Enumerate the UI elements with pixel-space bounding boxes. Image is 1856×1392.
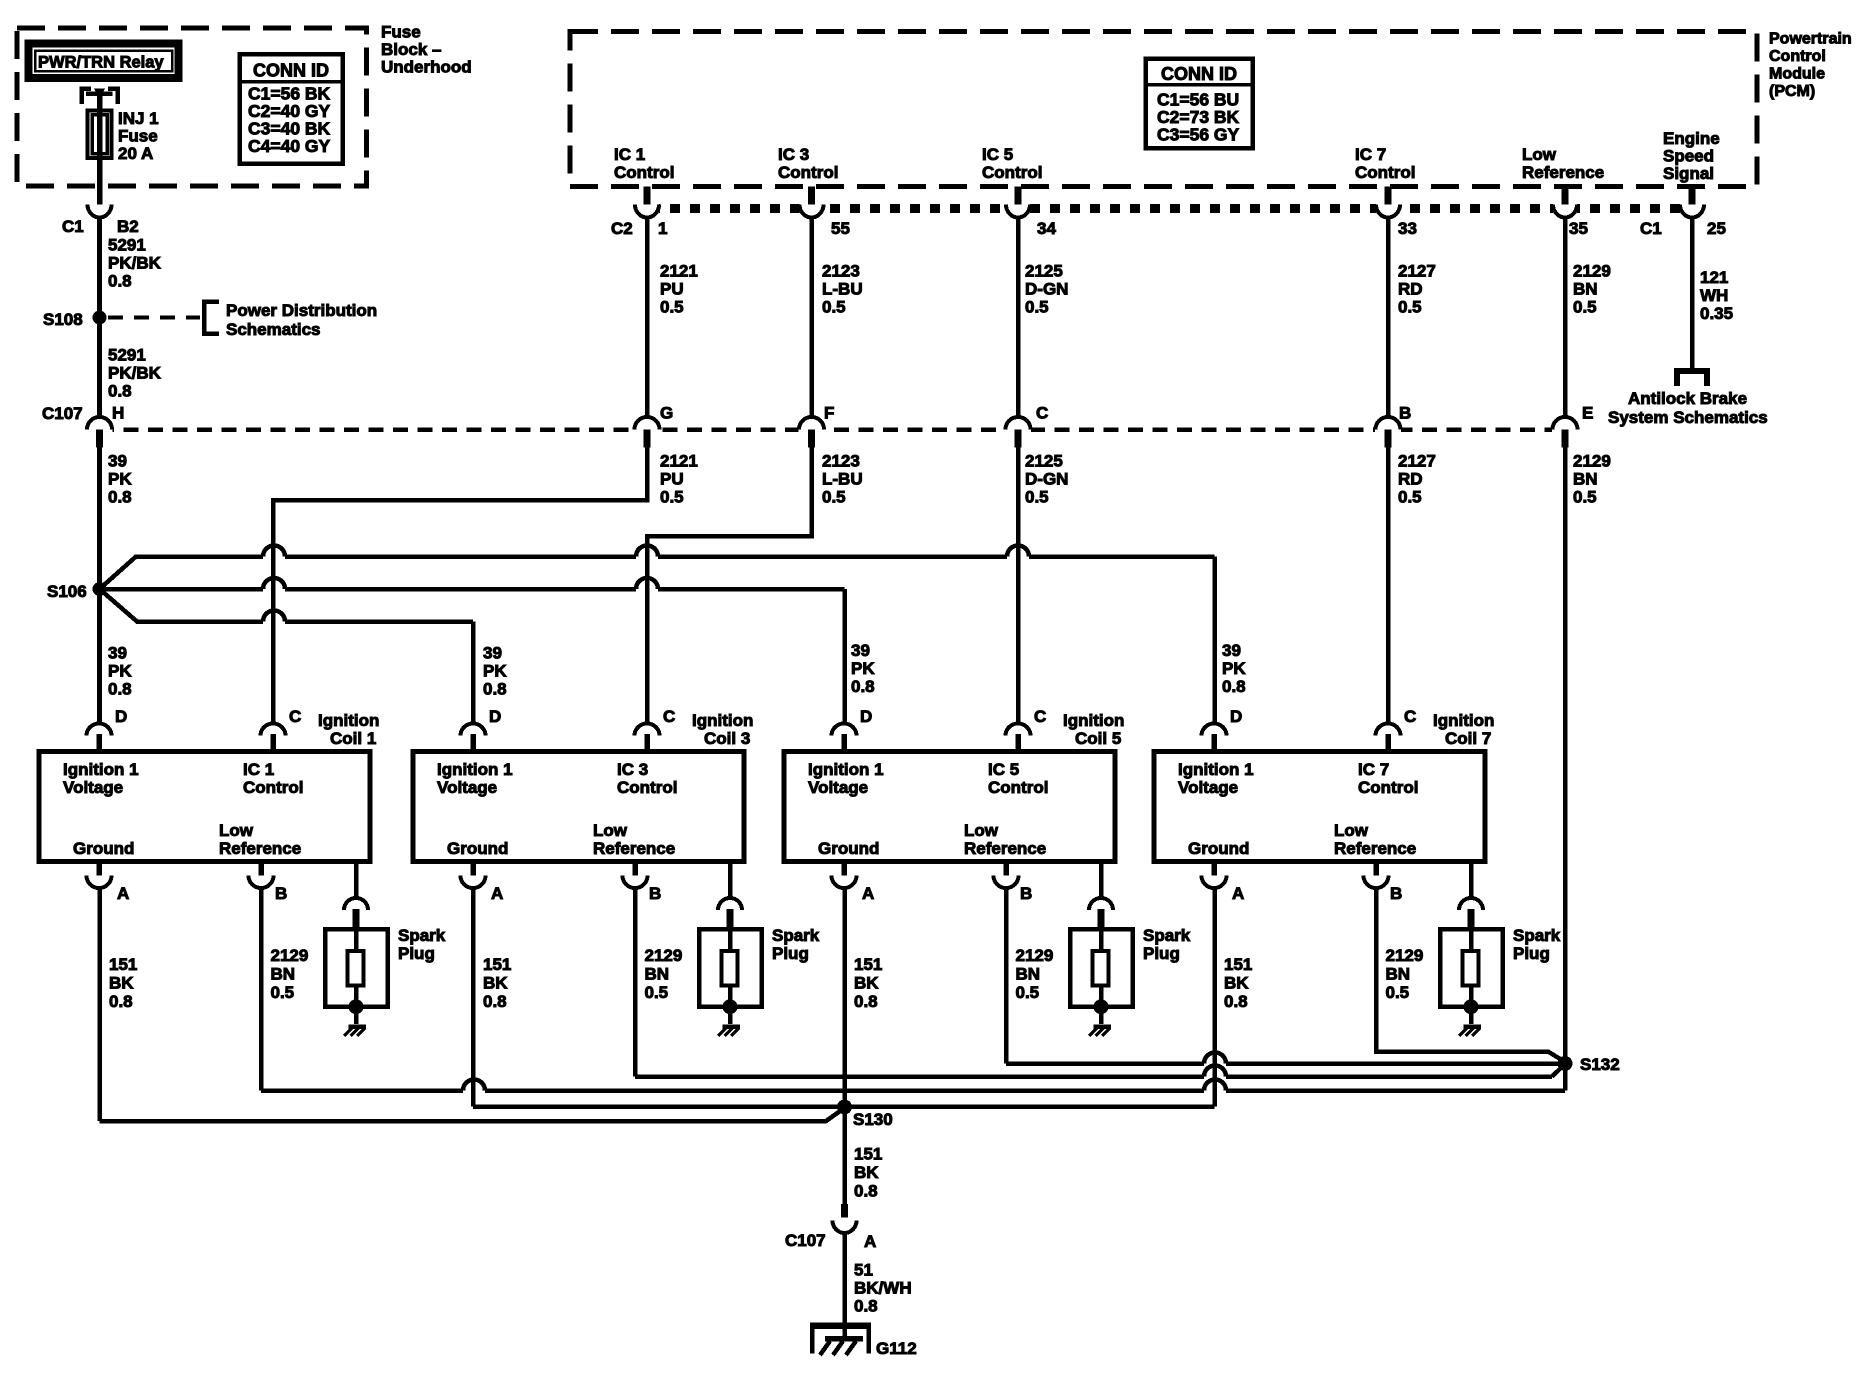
svg-text:2121: 2121 — [660, 452, 698, 471]
svg-text:0.8: 0.8 — [108, 272, 132, 291]
svg-text:151: 151 — [1224, 955, 1252, 974]
spark plug 1 resistor element — [348, 951, 364, 986]
svg-text:0.5: 0.5 — [1386, 983, 1410, 1002]
svg-text:Ignition 1: Ignition 1 — [437, 760, 513, 779]
svg-text:D: D — [1230, 707, 1242, 726]
svg-text:B: B — [649, 884, 661, 903]
svg-text:51: 51 — [854, 1261, 873, 1280]
svg-text:Reference: Reference — [593, 839, 675, 858]
svg-text:0.8: 0.8 — [109, 992, 133, 1011]
svg-text:BN: BN — [1573, 470, 1598, 489]
svg-text:0.5: 0.5 — [1398, 488, 1422, 507]
wire 151 BK: coil 7 ground to S130 bus — [1212, 886, 1217, 1107]
svg-text:D-GN: D-GN — [1025, 470, 1068, 489]
wire hop (39 PK top over 2123) — [636, 546, 658, 557]
wire hop (39 PK bottom over 2121) — [263, 611, 285, 622]
wire 2129 BN: coil 3 low reference bus — [633, 886, 638, 1077]
connector C107 pin H — [87, 425, 113, 434]
wire hop (39 PK middle over 2121) — [263, 578, 285, 589]
svg-text:PK: PK — [851, 659, 875, 678]
svg-text:Coil 1: Coil 1 — [330, 729, 376, 748]
svg-text:A: A — [117, 884, 129, 903]
svg-text:Fuse: Fuse — [118, 127, 158, 146]
svg-text:Antilock Brake: Antilock Brake — [1628, 389, 1747, 408]
svg-text:Reference: Reference — [1334, 839, 1416, 858]
svg-text:Reference: Reference — [219, 839, 301, 858]
wire 151 BK: coil 1 ground to S130 — [97, 886, 102, 1121]
wire hop (coil 1 low ref over coil 7 ground) — [1204, 1080, 1226, 1091]
svg-text:A: A — [864, 1232, 876, 1251]
svg-text:2127: 2127 — [1398, 452, 1436, 471]
svg-text:B: B — [1020, 884, 1032, 903]
svg-text:IC 7: IC 7 — [1358, 760, 1389, 779]
spark plug 7 resistor element — [1463, 951, 1479, 986]
svg-text:0.8: 0.8 — [108, 488, 132, 507]
ground: spark plug 5 — [1099, 1007, 1104, 1024]
wire hop (39 PK top over 2121) — [263, 546, 285, 557]
svg-text:Low: Low — [1334, 821, 1369, 840]
svg-text:Block –: Block – — [381, 40, 441, 59]
svg-text:Ignition: Ignition — [1063, 711, 1124, 730]
svg-text:IC 7: IC 7 — [1355, 145, 1386, 164]
connector C107 pin G — [634, 425, 660, 434]
svg-text:BK/WH: BK/WH — [854, 1279, 912, 1298]
wire hop (coil 1 low ref over 151) — [463, 1080, 485, 1091]
spark plug 1 (box) — [325, 929, 388, 1007]
spark plug 7 connector — [1459, 898, 1483, 910]
svg-text:0.5: 0.5 — [1016, 983, 1040, 1002]
svg-text:Ignition: Ignition — [1433, 711, 1494, 730]
svg-text:Plug: Plug — [1143, 944, 1180, 963]
spark plug 5 (box) — [1070, 929, 1133, 1007]
svg-text:Reference: Reference — [1522, 163, 1604, 182]
svg-text:Coil 5: Coil 5 — [1075, 729, 1121, 748]
connector C107 pin C — [1005, 425, 1031, 434]
svg-text:BK: BK — [1224, 974, 1249, 993]
ground: spark plug 1 — [354, 1007, 359, 1024]
connector C107 pin A (bottom) — [833, 1221, 857, 1234]
svg-text:2129: 2129 — [645, 946, 683, 965]
wire 39 PK middle branch: S106 to coil 5 voltage — [106, 587, 263, 592]
svg-text:Signal: Signal — [1663, 164, 1714, 183]
svg-text:PK: PK — [1222, 659, 1246, 678]
coil 1 pin A connector (Ground) — [96, 861, 102, 876]
svg-text:2123: 2123 — [822, 262, 860, 281]
wire hop (coil 3 low ref over coil 7 ground) — [1204, 1066, 1226, 1077]
svg-text:Coil 7: Coil 7 — [1445, 729, 1491, 748]
PCM module box (dashed) — [570, 32, 1757, 187]
spark plug 3 resistor element — [722, 951, 738, 986]
svg-text:0.5: 0.5 — [660, 298, 684, 317]
wire 39 PK bottom branch: S106 to coil 3 voltage — [100, 589, 264, 622]
svg-text:B: B — [1399, 404, 1411, 423]
ground: spark plug 7 — [1469, 1007, 1474, 1024]
svg-text:C: C — [289, 707, 301, 726]
connector C107 pin F — [799, 425, 825, 434]
coil 1 pin D connector (Ignition 1 Voltage) — [87, 724, 112, 736]
svg-text:0.8: 0.8 — [1224, 992, 1248, 1011]
junction: spark plug 1 shell — [349, 999, 364, 1014]
connector C2 dotted line — [650, 204, 1710, 213]
svg-text:2129: 2129 — [1386, 946, 1424, 965]
svg-text:0.5: 0.5 — [1025, 488, 1049, 507]
wire 51 BK/WH: C107 A to G112 — [842, 1232, 847, 1338]
wire 5291 PK/BK: S108 to C107 H — [97, 318, 102, 418]
svg-text:39: 39 — [108, 452, 127, 471]
connector C2/C1 pin 25 (PCM) — [1680, 202, 1704, 215]
svg-text:2129: 2129 — [271, 946, 309, 965]
svg-text:H: H — [112, 404, 124, 423]
svg-text:Voltage: Voltage — [437, 778, 497, 797]
svg-text:D-GN: D-GN — [1025, 280, 1068, 299]
svg-text:0.8: 0.8 — [108, 680, 132, 699]
svg-text:Schematics: Schematics — [226, 320, 321, 339]
svg-text:39: 39 — [1222, 641, 1241, 660]
svg-text:L-BU: L-BU — [822, 280, 863, 299]
svg-text:2125: 2125 — [1025, 262, 1063, 281]
connector C2/C1 pin 34 (PCM) — [1006, 202, 1030, 215]
svg-text:PK/BK: PK/BK — [108, 364, 162, 383]
svg-text:C: C — [1034, 707, 1046, 726]
svg-text:B: B — [275, 884, 287, 903]
svg-text:151: 151 — [109, 955, 137, 974]
fuse block - underhood module (dashed box) — [17, 28, 367, 186]
svg-text:0.8: 0.8 — [108, 382, 132, 401]
svg-text:Control: Control — [778, 163, 838, 182]
svg-text:Control: Control — [1358, 778, 1418, 797]
splice S132 — [1558, 1056, 1573, 1071]
svg-text:C2: C2 — [611, 219, 633, 238]
svg-text:35: 35 — [1569, 219, 1588, 238]
svg-text:Speed: Speed — [1663, 147, 1714, 166]
svg-text:Voltage: Voltage — [63, 778, 123, 797]
svg-text:Control: Control — [982, 163, 1042, 182]
svg-text:C: C — [1404, 707, 1416, 726]
svg-text:2129: 2129 — [1573, 452, 1611, 471]
svg-text:Low: Low — [593, 821, 628, 840]
coil 5 pin C connector (IC Control) — [1006, 724, 1031, 736]
coil 5 pin A connector (Ground) — [841, 861, 847, 876]
svg-text:C107: C107 — [42, 404, 83, 423]
svg-text:1: 1 — [658, 219, 667, 238]
svg-text:Spark: Spark — [1513, 926, 1561, 945]
svg-text:(PCM): (PCM) — [1769, 83, 1815, 100]
svg-text:151: 151 — [483, 955, 511, 974]
svg-text:F: F — [824, 404, 834, 423]
spark plug 7 (box) — [1440, 929, 1503, 1007]
svg-text:S108: S108 — [43, 310, 83, 329]
svg-text:D: D — [489, 707, 501, 726]
svg-text:Ignition: Ignition — [692, 711, 753, 730]
relay PWR/TRN Relay (box) — [29, 44, 179, 79]
wire 2129 BN: C107 E down to S132 / low reference bus — [1563, 447, 1568, 1091]
svg-text:Control: Control — [243, 778, 303, 797]
connector C2/C1 pin 55 (PCM) — [800, 202, 824, 215]
svg-text:Spark: Spark — [398, 926, 446, 945]
svg-text:RD: RD — [1398, 280, 1423, 299]
svg-text:Plug: Plug — [772, 944, 809, 963]
svg-text:Powertrain: Powertrain — [1769, 31, 1852, 48]
svg-text:B2: B2 — [117, 217, 139, 236]
svg-text:Ignition 1: Ignition 1 — [63, 760, 139, 779]
wire: coil 5 to spark plug — [1099, 861, 1104, 899]
wire 2123 L-BU: C107 F to coil 3 IC control — [647, 447, 812, 724]
bracket: Antilock Brake System Schematics reference — [1677, 371, 1707, 386]
svg-text:RD: RD — [1398, 470, 1423, 489]
wire 121 WH: engine speed signal — [1690, 216, 1695, 371]
relay contact symbol — [82, 89, 92, 105]
svg-text:BN: BN — [1386, 965, 1411, 984]
wire: spark plug 7 internal — [1469, 929, 1474, 951]
svg-text:G: G — [660, 404, 673, 423]
svg-text:C1: C1 — [1640, 219, 1662, 238]
svg-text:151: 151 — [854, 955, 882, 974]
spark plug 1 connector — [344, 898, 368, 910]
svg-text:BN: BN — [1016, 965, 1041, 984]
svg-text:Control: Control — [1355, 163, 1415, 182]
connector C107 pin E — [1552, 425, 1578, 434]
svg-text:G112: G112 — [876, 1339, 917, 1358]
wire: spark plug 5 internal — [1099, 929, 1104, 951]
wire 151 BK: S130 to C107 A — [842, 1107, 847, 1204]
coil 7 pin D connector (Ignition 1 Voltage) — [1202, 724, 1227, 736]
svg-text:S132: S132 — [1580, 1055, 1620, 1074]
svg-text:121: 121 — [1700, 268, 1728, 287]
svg-text:0.5: 0.5 — [660, 488, 684, 507]
svg-text:D: D — [860, 707, 872, 726]
svg-text:Fuse: Fuse — [381, 23, 421, 42]
svg-text:0.5: 0.5 — [822, 298, 846, 317]
svg-text:0.5: 0.5 — [1573, 298, 1597, 317]
svg-text:Control: Control — [617, 778, 677, 797]
svg-text:CONN ID: CONN ID — [253, 61, 329, 81]
svg-text:0.5: 0.5 — [822, 488, 846, 507]
spark plug 5 resistor element — [1093, 951, 1109, 986]
coil 7 pin A connector (Ground) — [1211, 861, 1217, 876]
svg-text:Ignition 1: Ignition 1 — [1178, 760, 1254, 779]
svg-text:C: C — [1036, 404, 1048, 423]
svg-text:55: 55 — [831, 219, 850, 238]
fuse block CONN ID table — [240, 54, 343, 164]
svg-text:Control: Control — [988, 778, 1048, 797]
connector C1 (fuse block, pin B2) — [88, 205, 112, 218]
ignition coil 7 (module box) — [1154, 752, 1485, 862]
svg-text:PK: PK — [483, 662, 507, 681]
PCM CONN ID table — [1146, 59, 1253, 149]
svg-text:2121: 2121 — [660, 262, 698, 281]
svg-text:2129: 2129 — [1016, 946, 1054, 965]
svg-text:39: 39 — [108, 644, 127, 663]
svg-text:0.8: 0.8 — [854, 1182, 878, 1201]
ignition coil 1 (module box) — [39, 752, 370, 862]
ignition coil 5 (module box) — [784, 752, 1115, 862]
svg-text:BK: BK — [483, 974, 508, 993]
svg-text:151: 151 — [854, 1145, 882, 1164]
svg-text:2123: 2123 — [822, 452, 860, 471]
svg-text:S106: S106 — [47, 582, 87, 601]
wire 2121 PU: C107 G to coil 1 IC control — [273, 447, 647, 724]
connector C2/C1 pin 35 (PCM) — [1553, 202, 1577, 215]
svg-text:C4=40 GY: C4=40 GY — [248, 136, 331, 156]
svg-text:PU: PU — [660, 470, 684, 489]
wire hop (39 PK top over 2125) — [1007, 546, 1029, 557]
coil 3 pin C connector (IC Control) — [635, 724, 660, 736]
svg-text:Ground: Ground — [73, 839, 134, 858]
svg-text:0.8: 0.8 — [854, 1297, 878, 1316]
wire 2125 D-GN: PCM pin 34 to C107 C — [1016, 216, 1021, 418]
svg-text:5291: 5291 — [108, 236, 146, 255]
svg-text:Ground: Ground — [1188, 839, 1249, 858]
wire 2121 PU: PCM pin 1 to C107 G — [645, 216, 650, 418]
wire 151 BK: coil 3 ground to S130 bus — [471, 886, 476, 1107]
wire hop (coil 5 low ref over coil 7 ground) — [1204, 1053, 1226, 1064]
svg-text:0.8: 0.8 — [851, 677, 875, 696]
svg-text:System Schematics: System Schematics — [1608, 408, 1768, 427]
splice S106 — [93, 582, 107, 596]
svg-text:Power Distribution: Power Distribution — [226, 301, 377, 320]
coil 3 pin B connector (Low Reference) — [632, 861, 638, 876]
svg-text:Coil 3: Coil 3 — [704, 729, 750, 748]
svg-text:A: A — [491, 884, 503, 903]
svg-text:Low: Low — [1522, 145, 1557, 164]
svg-text:0.5: 0.5 — [1398, 298, 1422, 317]
bracket: Power Distribution Schematics reference — [204, 302, 219, 334]
svg-text:0.8: 0.8 — [483, 680, 507, 699]
ground G112 (symbol) — [810, 1322, 871, 1329]
wire: spark plug 1 internal — [354, 929, 359, 951]
coil 3 pin A connector (Ground) — [470, 861, 476, 876]
svg-text:Spark: Spark — [1143, 926, 1191, 945]
wire hop (39 PK middle over 2123) — [636, 578, 658, 589]
wire 39 PK: C107 H to S106 — [97, 447, 102, 589]
svg-text:25: 25 — [1707, 219, 1726, 238]
svg-text:C: C — [663, 707, 675, 726]
svg-text:A: A — [862, 884, 874, 903]
wire 5291 PK/BK: C1 to S108 — [97, 216, 102, 318]
wire: relay through INJ 1 fuse to connector C1 — [97, 95, 103, 205]
svg-text:Module: Module — [1769, 66, 1825, 83]
svg-text:Plug: Plug — [1513, 944, 1550, 963]
wire 2125 D-GN: C107 C to coil 5 IC control — [1016, 447, 1021, 724]
svg-text:2125: 2125 — [1025, 452, 1063, 471]
svg-text:20 A: 20 A — [118, 144, 153, 163]
svg-text:PK: PK — [108, 470, 132, 489]
svg-text:2127: 2127 — [1398, 262, 1436, 281]
svg-text:33: 33 — [1398, 219, 1417, 238]
coil 7 pin C connector (IC Control) — [1376, 724, 1401, 736]
wire 39 PK: S106 down to coil 1 voltage — [97, 589, 102, 724]
connector C107 dashed line — [99, 427, 1578, 432]
svg-text:Low: Low — [219, 821, 254, 840]
junction: spark plug 5 shell — [1094, 999, 1109, 1014]
coil 1 pin B connector (Low Reference) — [258, 861, 264, 876]
svg-text:B: B — [1390, 884, 1402, 903]
svg-text:39: 39 — [483, 644, 502, 663]
svg-text:CONN ID: CONN ID — [1161, 64, 1237, 84]
svg-text:0.35: 0.35 — [1700, 304, 1733, 323]
svg-text:Engine: Engine — [1663, 129, 1720, 148]
wire: coil 1 to spark plug — [354, 861, 359, 899]
svg-text:IC 5: IC 5 — [988, 760, 1019, 779]
fuse INJ 1 (symbol) — [88, 111, 112, 159]
svg-text:Spark: Spark — [772, 926, 820, 945]
svg-text:Low: Low — [964, 821, 999, 840]
wire 2129 BN: PCM pin 35 to C107 E — [1563, 216, 1568, 418]
wire 2129 BN: coil 7 low reference to S132 — [1376, 886, 1565, 1062]
svg-text:Ground: Ground — [447, 839, 508, 858]
connector C2/C1 pin 1 (PCM) — [635, 202, 659, 215]
wire 2127 RD: PCM pin 33 to C107 B — [1386, 216, 1391, 418]
svg-text:BK: BK — [109, 974, 134, 993]
svg-text:IC 1: IC 1 — [243, 760, 274, 779]
svg-text:0.8: 0.8 — [854, 992, 878, 1011]
svg-text:BN: BN — [1573, 280, 1598, 299]
svg-text:PWR/TRN Relay: PWR/TRN Relay — [38, 54, 164, 72]
svg-text:Ground: Ground — [818, 839, 879, 858]
svg-text:PU: PU — [660, 280, 684, 299]
svg-text:E: E — [1582, 404, 1593, 423]
splice S130 — [837, 1100, 852, 1115]
wire 2129 BN: coil 1 low reference bus — [259, 886, 264, 1091]
splice S108 — [93, 311, 107, 325]
svg-text:A: A — [1232, 884, 1244, 903]
spark plug 3 connector — [718, 898, 742, 910]
svg-text:Plug: Plug — [398, 944, 435, 963]
connector C107 pin B — [1375, 425, 1401, 434]
svg-text:Voltage: Voltage — [808, 778, 868, 797]
svg-text:Underhood: Underhood — [381, 58, 472, 77]
ignition coil 3 (module box) — [413, 752, 744, 862]
wire: spark plug 3 internal — [728, 929, 733, 951]
wire: coil 3 to spark plug — [728, 861, 733, 899]
svg-text:0.5: 0.5 — [645, 983, 669, 1002]
svg-text:BN: BN — [271, 965, 296, 984]
coil 3 pin D connector (Ignition 1 Voltage) — [461, 724, 486, 736]
svg-text:39: 39 — [851, 641, 870, 660]
connector C2/C1 pin 33 (PCM) — [1376, 202, 1400, 215]
svg-text:IC 1: IC 1 — [614, 145, 645, 164]
svg-text:5291: 5291 — [108, 346, 146, 365]
wire 2129 BN: coil 5 low reference bus — [1004, 886, 1009, 1064]
wire 151 BK: coil 5 ground to S130 — [842, 886, 847, 1107]
svg-text:0.5: 0.5 — [271, 983, 295, 1002]
svg-text:Reference: Reference — [964, 839, 1046, 858]
coil 5 pin D connector (Ignition 1 Voltage) — [832, 724, 857, 736]
svg-text:PK: PK — [108, 662, 132, 681]
svg-text:IC 3: IC 3 — [617, 760, 648, 779]
svg-text:C1: C1 — [62, 217, 84, 236]
svg-text:INJ 1: INJ 1 — [118, 109, 159, 128]
junction: spark plug 3 shell — [723, 999, 738, 1014]
junction: spark plug 7 shell — [1464, 999, 1479, 1014]
ground: spark plug 3 — [728, 1007, 733, 1024]
wire 2123 L-BU: PCM pin 55 to C107 F — [809, 216, 814, 418]
svg-text:PK/BK: PK/BK — [108, 254, 162, 273]
wire 2127 RD: C107 B to coil 7 IC control — [1386, 447, 1391, 724]
svg-text:S130: S130 — [853, 1110, 893, 1129]
wire 39 PK top branch: S106 to coil 7 voltage — [100, 557, 264, 590]
svg-text:D: D — [115, 707, 127, 726]
svg-text:Control: Control — [1769, 48, 1826, 65]
spark plug 3 (box) — [699, 929, 762, 1007]
svg-text:Ignition: Ignition — [318, 711, 379, 730]
coil 1 pin C connector (IC Control) — [261, 724, 286, 736]
wire: coil 7 to spark plug — [1469, 861, 1474, 899]
svg-text:BK: BK — [854, 1163, 879, 1182]
svg-text:Voltage: Voltage — [1178, 778, 1238, 797]
svg-text:IC 5: IC 5 — [982, 145, 1013, 164]
coil 7 pin B connector (Low Reference) — [1373, 861, 1379, 876]
